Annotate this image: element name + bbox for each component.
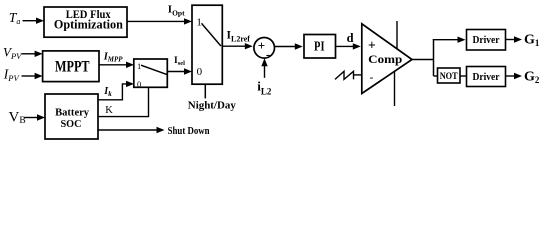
svg-text:Driver: Driver (473, 72, 501, 83)
svg-text:Shut Down: Shut Down (168, 126, 210, 137)
switch SW1 wiper (202, 23, 221, 46)
svg-text:1: 1 (137, 61, 141, 71)
wire Ik from Battery SOC to SW2 input 0 (98, 81, 134, 100)
wire VPV to MPPT (22, 51, 43, 57)
wire Ta to LED block (23, 18, 45, 24)
wire comparator output to NOT (434, 75, 438, 77)
svg-text:1: 1 (196, 16, 202, 28)
svg-text:+: + (258, 38, 265, 53)
switch SW2 K selector box (134, 59, 168, 89)
svg-text:Driver: Driver (473, 35, 501, 46)
switch SW2 wiper (141, 65, 167, 74)
wire Night/Day control into SW1 (204, 84, 206, 98)
wire MPPT to switch SW2 input 1 (99, 62, 134, 68)
comparator negative supply pin (394, 71, 396, 106)
switch SW1 Night/Day selector box (192, 5, 222, 84)
block Driver2 (467, 67, 506, 87)
wire iL2 feedback into summer (261, 58, 267, 78)
block MPPT (43, 51, 99, 82)
svg-text:NOT: NOT (440, 72, 459, 82)
wire SW2 output to SW1 input 0 (167, 68, 192, 74)
block Battery SOC (45, 94, 98, 139)
svg-text:Battery: Battery (55, 107, 89, 119)
svg-text:PI: PI (314, 38, 325, 53)
svg-text:0: 0 (137, 79, 141, 89)
wire U1 output to switch SW1 input 1 (127, 18, 192, 24)
svg-text:+: + (368, 37, 376, 52)
svg-text:Comp: Comp (368, 52, 402, 66)
svg-text:d: d (347, 31, 354, 45)
wire Driver1 to G1 (506, 36, 523, 42)
wire NOT1 to Driver2 (460, 75, 467, 77)
svg-text:SOC: SOC (61, 118, 82, 130)
summer S1 (254, 38, 275, 62)
wire Driver2 to G2 (506, 73, 523, 79)
op-amp U2 comparator (362, 21, 412, 106)
svg-text:0: 0 (197, 66, 203, 78)
wire SW1 output to summer (222, 43, 253, 49)
wire VB to Battery SOC (24, 114, 45, 120)
block U1 LED Flux Optimization (44, 7, 127, 37)
wire sawtooth to comparator minus input (354, 74, 362, 76)
wire IPV to MPPT (22, 73, 43, 79)
gate NOT1 (438, 68, 461, 83)
svg-text:Optimization: Optimization (54, 18, 123, 32)
svg-text:-: - (266, 46, 270, 61)
wire Shut Down output (98, 127, 165, 133)
wire PI to comparator (336, 43, 361, 49)
svg-text:Night/Day: Night/Day (188, 101, 237, 112)
wire comparator output (412, 39, 434, 76)
sawtooth carrier waveform (335, 71, 354, 79)
block Driver1 (467, 30, 506, 51)
comparator positive supply pin (396, 21, 398, 49)
wire summer to PI (274, 43, 303, 49)
svg-text:K: K (105, 105, 113, 116)
block PI controller (304, 35, 336, 59)
wire K control from Battery SOC to SW2 (98, 87, 149, 116)
wire to Driver1 (433, 37, 466, 43)
svg-text:MPPT: MPPT (55, 58, 90, 75)
svg-text:-: - (370, 71, 374, 83)
